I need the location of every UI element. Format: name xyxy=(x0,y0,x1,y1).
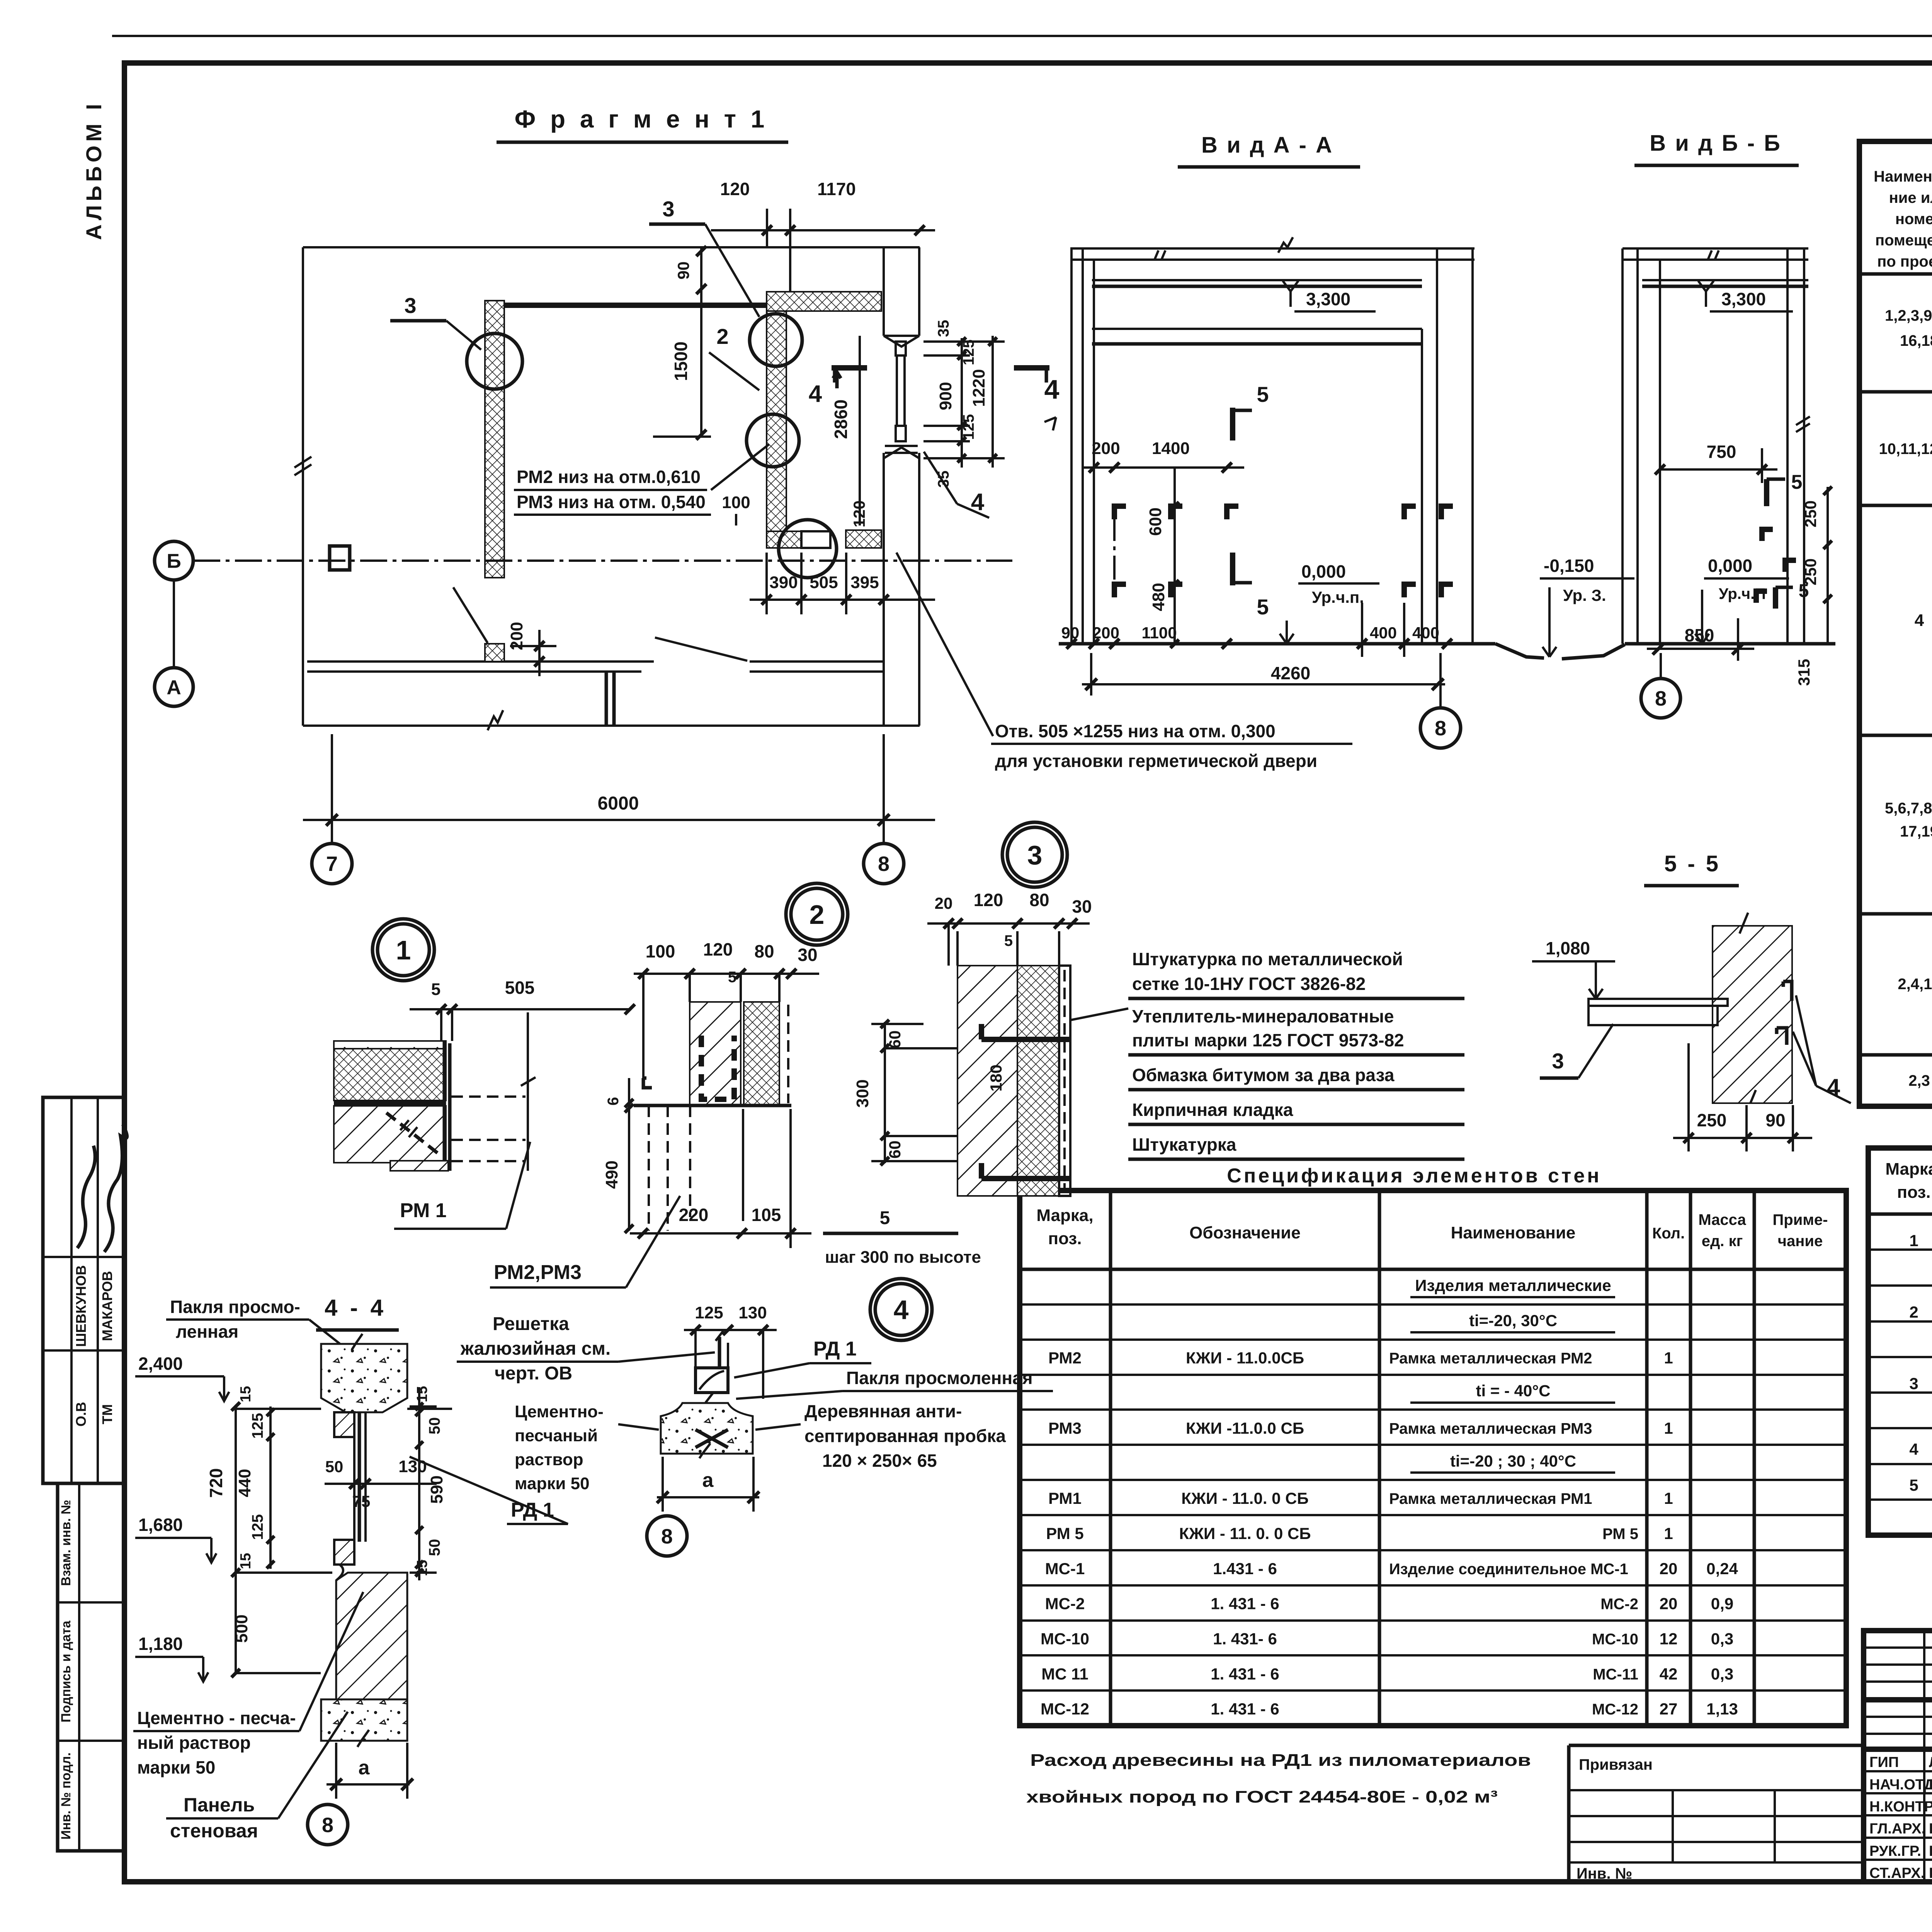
mortar top strip xyxy=(334,1041,446,1049)
svg-text:3: 3 xyxy=(1552,1049,1564,1073)
svg-text:5: 5 xyxy=(1257,382,1269,406)
svg-text:КЖИ - 11. 0. 0 СБ: КЖИ - 11. 0. 0 СБ xyxy=(1179,1524,1311,1543)
svg-text:8: 8 xyxy=(1655,687,1667,710)
svg-text:600: 600 xyxy=(1146,507,1165,536)
right extension line with break xyxy=(527,1012,529,1171)
dash-dot vertical between marks xyxy=(1113,514,1116,580)
svg-text:1.431 - 6: 1.431 - 6 xyxy=(1213,1560,1277,1578)
svg-text:50: 50 xyxy=(426,1417,443,1435)
svg-text:90: 90 xyxy=(1765,1110,1785,1130)
svg-text:2,3: 2,3 xyxy=(1908,1072,1930,1089)
svg-text:1: 1 xyxy=(1664,1419,1673,1437)
svg-text:РУК.ГР.: РУК.ГР. xyxy=(1869,1843,1921,1859)
svg-text:Кирпичная кладка: Кирпичная кладка xyxy=(1132,1100,1293,1120)
channel verticals xyxy=(358,1412,361,1542)
left wall verticals xyxy=(1621,248,1624,644)
axis A circle xyxy=(155,668,193,706)
window sill lines xyxy=(885,445,918,447)
svg-text:5: 5 xyxy=(1004,932,1013,949)
svg-text:120: 120 xyxy=(703,939,733,959)
svg-text:ГАВРИЛОВ: ГАВРИЛОВ xyxy=(1929,1821,1932,1837)
svg-text:Цементно - песча-: Цементно - песча- xyxy=(137,1708,296,1728)
svg-text:0,24: 0,24 xyxy=(1706,1560,1738,1578)
svg-text:0,000: 0,000 xyxy=(1301,561,1346,582)
svg-text:марки 50: марки 50 xyxy=(515,1474,590,1493)
wall stub with 200 dim xyxy=(485,644,504,662)
svg-text:Ур. З.: Ур. З. xyxy=(1563,586,1606,604)
svg-text:20: 20 xyxy=(935,894,953,912)
svg-text:СТ.АРХ.: СТ.АРХ. xyxy=(1869,1865,1925,1881)
RD1 block xyxy=(696,1368,728,1393)
svg-text:750: 750 xyxy=(1707,442,1736,462)
svg-text:КЖИ - 11.0. 0 СБ: КЖИ - 11.0. 0 СБ xyxy=(1181,1489,1308,1507)
svg-text:МС-12: МС-12 xyxy=(1592,1701,1638,1718)
svg-text:tі=-20 ; 30 ; 40°С: tі=-20 ; 30 ; 40°С xyxy=(1450,1452,1576,1470)
svg-text:100: 100 xyxy=(722,493,750,512)
svg-text:О.В: О.В xyxy=(73,1402,89,1427)
svg-text:3,300: 3,300 xyxy=(1721,289,1766,309)
svg-text:МС-10: МС-10 xyxy=(1592,1631,1638,1648)
svg-text:0,3: 0,3 xyxy=(1711,1665,1733,1683)
svg-text:3: 3 xyxy=(404,293,416,318)
brick column xyxy=(690,1002,741,1105)
svg-text:1. 431 - 6: 1. 431 - 6 xyxy=(1211,1665,1279,1683)
svg-text:0,3: 0,3 xyxy=(1711,1630,1733,1648)
svg-text:1: 1 xyxy=(1664,1489,1673,1507)
svg-text:жалюзийная см.: жалюзийная см. xyxy=(460,1338,611,1359)
svg-text:8: 8 xyxy=(1435,717,1446,740)
heavy mid line xyxy=(334,1100,446,1106)
svg-text:125: 125 xyxy=(695,1303,723,1322)
svg-text:4: 4 xyxy=(1044,374,1060,405)
window frame in right wall xyxy=(896,342,906,355)
leader to labels xyxy=(1070,1009,1128,1020)
svg-text:250: 250 xyxy=(1801,500,1820,527)
svg-text:1: 1 xyxy=(1909,1231,1918,1250)
svg-text:105: 105 xyxy=(752,1205,781,1225)
top concrete block xyxy=(321,1344,407,1412)
svg-text:Изделие соединительное МС-1: Изделие соединительное МС-1 xyxy=(1389,1561,1628,1578)
signature rows xyxy=(1864,1770,1932,1772)
svg-text:а: а xyxy=(702,1469,714,1492)
svg-text:ние или: ние или xyxy=(1889,189,1932,206)
floors table row 2 xyxy=(1879,405,1932,488)
svg-text:8: 8 xyxy=(878,852,889,876)
svg-text:Взам. инв. №: Взам. инв. № xyxy=(59,1500,73,1586)
svg-text:2: 2 xyxy=(716,324,728,349)
svg-text:Штукатурка: Штукатурка xyxy=(1132,1134,1236,1155)
svg-text:4: 4 xyxy=(1915,611,1924,630)
svg-text:tі=-20, 30°С: tі=-20, 30°С xyxy=(1469,1311,1557,1330)
detail circle on left wall xyxy=(467,333,522,389)
section mark 4 left xyxy=(832,365,867,371)
floors table row 1 xyxy=(1885,287,1932,370)
title block internal xyxy=(1864,1697,1932,1702)
svg-text:РМ3: РМ3 xyxy=(1048,1419,1082,1437)
svg-text:хвойных пород по ГОСТ 24454-80: хвойных пород по ГОСТ 24454-80Е - 0,02 м… xyxy=(1026,1787,1498,1806)
svg-text:МС-11: МС-11 xyxy=(1593,1666,1638,1683)
svg-text:2,400: 2,400 xyxy=(138,1354,183,1374)
bottom step foot xyxy=(390,1161,448,1171)
svg-text:6000: 6000 xyxy=(598,793,639,814)
circle 8 below A-A xyxy=(1439,653,1442,708)
concrete base with ogee top xyxy=(661,1403,753,1454)
svg-text:Рамка металлическая РМ2: Рамка металлическая РМ2 xyxy=(1389,1350,1592,1367)
plan top slab edge line xyxy=(303,246,920,248)
svg-text:180: 180 xyxy=(987,1065,1005,1092)
svg-text:1170: 1170 xyxy=(817,179,856,199)
svg-text:8: 8 xyxy=(661,1525,673,1548)
svg-text:5: 5 xyxy=(1909,1476,1918,1494)
svg-text:tі = - 40°С: tі = - 40°С xyxy=(1476,1382,1550,1400)
svg-text:РМ 5: РМ 5 xyxy=(1046,1524,1083,1543)
svg-text:ТМ: ТМ xyxy=(99,1404,115,1424)
svg-text:125: 125 xyxy=(249,1413,266,1439)
svg-text:Инв. № подл.: Инв. № подл. xyxy=(59,1752,73,1840)
svg-text:чание: чание xyxy=(1778,1233,1823,1250)
detail circle 1 xyxy=(372,919,434,981)
wall hatched column xyxy=(1713,926,1792,1103)
floors table row 3 xyxy=(1915,519,1932,714)
svg-text:490: 490 xyxy=(602,1160,621,1189)
svg-text:590: 590 xyxy=(427,1475,446,1503)
svg-text:5: 5 xyxy=(880,1208,890,1228)
0,000 ur.ch.p. mark xyxy=(1280,621,1294,644)
svg-text:Кол.: Кол. xyxy=(1652,1225,1685,1242)
svg-text:МС 11: МС 11 xyxy=(1041,1665,1088,1683)
svg-text:5: 5 xyxy=(1257,595,1269,619)
svg-text:В и д Б - Б: В и д Б - Б xyxy=(1650,131,1782,156)
svg-text:МАКАРОВ: МАКАРОВ xyxy=(99,1271,115,1341)
svg-text:плиты марки 125 ГОСТ 9573-82: плиты марки 125 ГОСТ 9573-82 xyxy=(1132,1030,1404,1050)
svg-text:1: 1 xyxy=(1664,1524,1673,1543)
tambour top hatched band xyxy=(767,292,881,311)
svg-text:480: 480 xyxy=(1149,583,1168,611)
svg-text:Панель: Панель xyxy=(184,1794,255,1816)
svg-text:марки 50: марки 50 xyxy=(137,1757,215,1777)
right edge frame piece xyxy=(443,1041,446,1163)
insulation band xyxy=(334,1049,446,1100)
svg-text:МС-12: МС-12 xyxy=(1041,1700,1089,1718)
floors table row 4 xyxy=(1885,748,1932,896)
3,300 level mark xyxy=(1283,281,1298,307)
floors table rows content placeholder: filled later xyxy=(1879,287,1932,1110)
lintel band xyxy=(1092,328,1422,330)
svg-text:Спецификация элементов стен: Спецификация элементов стен xyxy=(1227,1165,1601,1187)
svg-text:АЛЬБОМ I: АЛЬБОМ I xyxy=(82,100,106,240)
svg-text:400: 400 xyxy=(1412,624,1439,642)
svg-text:стеновая: стеновая xyxy=(170,1820,258,1842)
svg-text:130: 130 xyxy=(398,1457,427,1476)
right wall verticals xyxy=(1421,329,1423,644)
svg-text:по проекту: по проекту xyxy=(1877,253,1932,270)
section 5 marks xyxy=(1767,478,1785,481)
svg-text:2: 2 xyxy=(1909,1303,1918,1321)
svg-text:Инв. №: Инв. № xyxy=(1577,1865,1632,1882)
svg-text:поз.: поз. xyxy=(1048,1229,1082,1248)
door frame dashed corners xyxy=(1114,506,1126,519)
svg-text:КЖИ -11.0.0 СБ: КЖИ -11.0.0 СБ xyxy=(1186,1419,1304,1437)
ceiling slab lines xyxy=(1070,247,1475,250)
svg-text:поз.: поз. xyxy=(1897,1183,1931,1202)
svg-text:септированная пробка: септированная пробка xyxy=(804,1426,1006,1446)
ground dip between views xyxy=(1495,644,1625,659)
svg-text:0,000: 0,000 xyxy=(1708,556,1752,576)
svg-text:РМ2 низ на отм.0,610: РМ2 низ на отм.0,610 xyxy=(517,467,701,487)
svg-text:10,11,12,14: 10,11,12,14 xyxy=(1879,440,1932,457)
svg-text:720: 720 xyxy=(206,1468,226,1498)
svg-text:50: 50 xyxy=(325,1458,344,1476)
svg-text:Рамка металлическая РМ3: Рамка металлическая РМ3 xyxy=(1389,1420,1592,1437)
svg-text:4: 4 xyxy=(894,1295,909,1325)
ceiling band lower line xyxy=(1092,279,1422,281)
svg-text:ШЕВКУНОВ: ШЕВКУНОВ xyxy=(73,1265,89,1347)
svg-text:35: 35 xyxy=(935,320,952,337)
leader lines pointing to walls xyxy=(453,587,488,643)
svg-text:17,19: 17,19 xyxy=(1900,823,1932,840)
left wall verticals xyxy=(1070,248,1073,644)
svg-text:15: 15 xyxy=(238,1553,254,1569)
svg-text:ный раствор: ный раствор xyxy=(137,1733,251,1753)
svg-text:1. 431- 6: 1. 431- 6 xyxy=(1213,1630,1277,1648)
left hatched partition wall xyxy=(485,301,504,578)
svg-text:505: 505 xyxy=(505,978,535,998)
svg-text:5: 5 xyxy=(728,969,736,986)
right wall lower part xyxy=(883,453,885,726)
grate pin xyxy=(718,1337,721,1368)
svg-text:раствор: раствор xyxy=(515,1450,583,1469)
svg-text:20: 20 xyxy=(1660,1595,1678,1613)
svg-text:Изделия металлические: Изделия металлические xyxy=(1415,1276,1611,1294)
svg-text:80: 80 xyxy=(1029,890,1049,910)
svg-text:12: 12 xyxy=(1660,1630,1678,1648)
svg-text:30: 30 xyxy=(798,945,817,965)
svg-text:3: 3 xyxy=(1027,840,1043,870)
svg-text:4: 4 xyxy=(1909,1440,1918,1458)
shelf slab xyxy=(1588,999,1728,1006)
svg-text:250: 250 xyxy=(1801,558,1820,585)
svg-text:Подпись и дата: Подпись и дата xyxy=(59,1620,73,1723)
marka table grid lines xyxy=(1868,1284,1932,1287)
svg-text:-0,150: -0,150 xyxy=(1544,556,1594,576)
svg-text:42: 42 xyxy=(1660,1665,1678,1683)
svg-text:Обмазка битумом за два раза: Обмазка битумом за два раза xyxy=(1132,1065,1395,1085)
svg-text:505: 505 xyxy=(810,573,838,592)
panel block hatched xyxy=(336,1573,407,1699)
svg-text:Б: Б xyxy=(167,550,181,573)
svg-text:60: 60 xyxy=(886,1141,904,1159)
detail circle 2 xyxy=(786,883,848,945)
svg-text:220: 220 xyxy=(679,1205,709,1225)
svg-text:440: 440 xyxy=(235,1469,254,1497)
floor line xyxy=(1059,642,1495,646)
svg-text:РД 1: РД 1 xyxy=(813,1338,857,1360)
svg-text:для установки герметической дв: для установки герметической двери xyxy=(995,751,1317,771)
axis B circle xyxy=(155,541,193,580)
svg-text:6: 6 xyxy=(605,1097,622,1105)
svg-text:390: 390 xyxy=(769,573,798,592)
svg-text:РМ 5: РМ 5 xyxy=(1602,1526,1638,1543)
floor line xyxy=(1625,642,1835,646)
svg-text:1: 1 xyxy=(396,935,411,965)
upper wood block RD1 xyxy=(334,1412,354,1437)
svg-text:сетке 10-1НУ ГОСТ 3826-82: сетке 10-1НУ ГОСТ 3826-82 xyxy=(1132,974,1366,994)
svg-text:400: 400 xyxy=(1370,624,1397,642)
section mark 5 bottom xyxy=(1230,553,1235,585)
circle 8 below B-B xyxy=(1641,679,1680,718)
svg-text:1400: 1400 xyxy=(1152,439,1190,458)
svg-text:315: 315 xyxy=(1795,659,1813,686)
svg-text:120: 120 xyxy=(974,890,1003,910)
svg-text:МС-2: МС-2 xyxy=(1045,1595,1085,1613)
insulation column xyxy=(744,1002,779,1105)
privyazan sub-table xyxy=(1569,1744,1864,1747)
floors table row 5 xyxy=(1898,922,1932,1054)
svg-text:1. 431 - 6: 1. 431 - 6 xyxy=(1211,1700,1279,1718)
bottom concrete block xyxy=(321,1699,407,1741)
svg-text:Утеплитель-минераловатные: Утеплитель-минераловатные xyxy=(1132,1006,1394,1026)
section mark 4 right xyxy=(1014,365,1049,371)
axis B dash-dot line xyxy=(193,560,1012,562)
svg-text:Отв. 505 ×1255 низ на отм. 0,3: Отв. 505 ×1255 низ на отм. 0,300 xyxy=(995,721,1276,741)
svg-text:Пакля просмо-: Пакля просмо- xyxy=(170,1297,300,1317)
angle bracket left xyxy=(643,1078,652,1088)
circle on door corner xyxy=(779,520,837,578)
lower wood block RD1 xyxy=(334,1540,354,1565)
floors table row 6 xyxy=(1908,1063,1932,1102)
ceiling lines xyxy=(1622,247,1808,250)
svg-text:250: 250 xyxy=(1697,1110,1727,1130)
svg-text:5: 5 xyxy=(1791,471,1803,493)
svg-text:ЛЕВЧЕНКОВА: ЛЕВЧЕНКОВА xyxy=(1929,1754,1932,1770)
svg-text:120 × 250× 65: 120 × 250× 65 xyxy=(822,1451,937,1471)
detail circle 4 xyxy=(870,1279,932,1340)
brick band xyxy=(334,1106,446,1163)
svg-text:ГОМЗЯКОВ: ГОМЗЯКОВ xyxy=(1929,1777,1932,1793)
svg-text:850: 850 xyxy=(1685,625,1714,645)
svg-text:1,080: 1,080 xyxy=(1546,938,1590,958)
svg-text:1220: 1220 xyxy=(969,369,988,407)
svg-text:15: 15 xyxy=(414,1386,430,1402)
spec table grid lines xyxy=(1020,1303,1846,1306)
svg-text:РМ 1: РМ 1 xyxy=(400,1199,447,1222)
detail circle 3 xyxy=(1002,822,1067,887)
svg-text:2860: 2860 xyxy=(831,400,851,439)
svg-text:Приме-: Приме- xyxy=(1773,1211,1828,1228)
section mark 5 top xyxy=(1230,408,1235,440)
svg-text:Масса: Масса xyxy=(1698,1211,1746,1228)
svg-text:песчаный: песчаный xyxy=(515,1426,598,1445)
svg-text:1100: 1100 xyxy=(1141,624,1177,642)
svg-text:В и д А - А: В и д А - А xyxy=(1201,133,1333,158)
svg-text:РМ2,РМ3: РМ2,РМ3 xyxy=(494,1261,582,1284)
3,300 level xyxy=(1698,281,1714,307)
svg-text:Привязан: Привязан xyxy=(1579,1756,1653,1773)
svg-text:РМ3 низ на отм. 0,540: РМ3 низ на отм. 0,540 xyxy=(517,492,706,512)
svg-text:2: 2 xyxy=(810,900,825,930)
svg-text:20: 20 xyxy=(1660,1560,1678,1578)
svg-text:Марка,: Марка, xyxy=(1036,1206,1093,1225)
left dimension extension line with break xyxy=(302,247,304,726)
bottom feeder wall left xyxy=(307,660,654,663)
svg-text:1. 431 - 6: 1. 431 - 6 xyxy=(1211,1595,1279,1613)
svg-text:27: 27 xyxy=(1660,1700,1678,1718)
svg-text:ГИП: ГИП xyxy=(1869,1754,1899,1770)
svg-text:130: 130 xyxy=(738,1303,767,1322)
svg-text:8: 8 xyxy=(322,1813,333,1837)
svg-text:а: а xyxy=(359,1757,370,1779)
svg-text:120: 120 xyxy=(720,179,750,199)
break mark right wall xyxy=(1796,417,1810,432)
svg-text:Н.КОНТР.: Н.КОНТР. xyxy=(1869,1799,1932,1815)
svg-text:Ф р а г м е н т 1: Ф р а г м е н т 1 xyxy=(515,105,769,133)
svg-text:помещения: помещения xyxy=(1875,232,1932,249)
svg-text:4 - 4: 4 - 4 xyxy=(325,1295,386,1321)
svg-text:2,4,19: 2,4,19 xyxy=(1898,976,1932,993)
svg-text:50: 50 xyxy=(426,1539,443,1556)
svg-text:КАТКОВА: КАТКОВА xyxy=(1929,1865,1932,1881)
svg-text:395: 395 xyxy=(850,573,879,592)
svg-text:5,6,7,8,15: 5,6,7,8,15 xyxy=(1885,800,1932,817)
svg-text:900: 900 xyxy=(936,382,955,410)
tambour left hatched wall xyxy=(767,311,786,547)
svg-text:3: 3 xyxy=(1909,1374,1918,1393)
svg-text:7: 7 xyxy=(326,852,338,876)
detail circle on tambour wall xyxy=(750,314,802,366)
svg-text:Обозначение: Обозначение xyxy=(1189,1223,1301,1242)
svg-text:ТРЕЙБАЧ: ТРЕЙБАЧ xyxy=(1929,1798,1932,1815)
dashed U frame xyxy=(701,1036,734,1099)
svg-text:0,9: 0,9 xyxy=(1711,1595,1733,1613)
bottom feeder wall right xyxy=(750,660,884,663)
tambour bottom corner piece xyxy=(767,531,801,548)
angle profiles on wall xyxy=(1777,981,1792,1045)
svg-text:90: 90 xyxy=(674,262,692,280)
floor line xyxy=(634,1104,791,1107)
svg-text:шаг 300 по высоте: шаг 300 по высоте xyxy=(825,1248,981,1267)
svg-text:Рамка металлическая РМ1: Рамка металлическая РМ1 xyxy=(1389,1490,1592,1507)
left stamp rotated labels strip xyxy=(58,1483,124,1851)
svg-text:РМ1: РМ1 xyxy=(1048,1489,1082,1507)
plan bottom line xyxy=(303,724,920,727)
svg-text:30: 30 xyxy=(1072,896,1092,917)
left small grid rows xyxy=(1864,1646,1932,1649)
svg-text:5: 5 xyxy=(431,980,440,999)
svg-text:4: 4 xyxy=(809,381,822,407)
svg-text:МС-2: МС-2 xyxy=(1600,1596,1638,1613)
svg-text:Цементно-: Цементно- xyxy=(515,1402,604,1421)
svg-text:1,680: 1,680 xyxy=(138,1515,183,1535)
svg-text:Пакля просмоленная: Пакля просмоленная xyxy=(846,1368,1033,1388)
svg-text:100: 100 xyxy=(646,941,675,961)
svg-text:1,180: 1,180 xyxy=(138,1634,183,1654)
svg-text:120: 120 xyxy=(850,500,868,527)
svg-text:3: 3 xyxy=(662,197,674,221)
svg-text:Расход древесины на РД1 из пил: Расход древесины на РД1 из пиломатериало… xyxy=(1030,1751,1531,1770)
svg-text:125: 125 xyxy=(249,1514,266,1540)
plaster thin layer xyxy=(1059,966,1070,1196)
plan top wall thick line xyxy=(485,303,769,308)
svg-text:КЖИ - 11.0.0СБ: КЖИ - 11.0.0СБ xyxy=(1186,1349,1304,1367)
dashed frame lines to right xyxy=(451,1095,526,1098)
wood consumption note xyxy=(1026,1751,1531,1806)
svg-text:300: 300 xyxy=(853,1079,872,1107)
svg-text:1: 1 xyxy=(1664,1349,1673,1367)
svg-text:А: А xyxy=(167,677,181,699)
sheet outer margin line top xyxy=(112,35,1932,37)
svg-text:80: 80 xyxy=(754,941,774,961)
insulation layer xyxy=(1017,966,1059,1196)
